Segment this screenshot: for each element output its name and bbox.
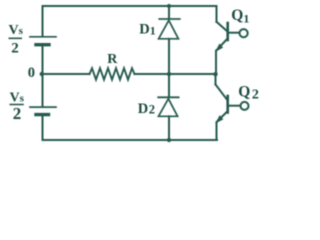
wire left vertical lower: [42, 115, 44, 140]
wire D1 anode to middle: [168, 39, 170, 74]
svg-text:D2: D2: [138, 101, 155, 117]
fraction bar of lower Vs/2 label: [10, 104, 23, 106]
svg-text:2: 2: [13, 104, 21, 123]
wire D2 anode to bottom rail: [168, 116, 170, 140]
wire Q1 emitter to middle junction: [215, 51, 217, 74]
battery Vs/2 lower: long plate: [30, 106, 56, 108]
svg-text:Q1: Q1: [231, 7, 249, 26]
junction dot middle / right branch: [213, 72, 217, 76]
wire Q2 collector from middle junction: [215, 74, 217, 85]
transistor Q2 base bar: [226, 96, 229, 113]
junction dot bottom rail / D2: [167, 138, 171, 142]
transistor Q2 emitter diagonal: [217, 111, 228, 121]
svg-text:D1: D1: [139, 22, 155, 38]
transistor Q2 base lead: [229, 105, 241, 107]
transistor Q1 emitter diagonal: [217, 39, 228, 50]
transistor Q1 emitter arrowhead: [216, 44, 222, 50]
junction dot middle / D branch: [167, 72, 171, 76]
diode D1 cathode bar: [159, 18, 180, 20]
wire left vertical upper: [42, 6, 44, 36]
wire D-branch top: [168, 6, 170, 19]
transistor Q2 emitter arrowhead: [216, 116, 222, 122]
wire middle right to right branch: [135, 73, 216, 75]
battery Vs/2 upper: short plate: [36, 43, 49, 46]
junction dot top rail / D1: [167, 4, 171, 8]
transistor Q1 base lead: [229, 32, 240, 34]
transistor Q2 base terminal circle: [241, 102, 249, 110]
junction node 0 dot: [40, 72, 44, 76]
transistor Q2 collector diagonal: [216, 85, 228, 101]
svg-text:2: 2: [11, 41, 18, 57]
wire middle left from node 0: [43, 73, 90, 75]
battery Vs/2 upper: long plate: [30, 36, 56, 38]
svg-text:R: R: [107, 52, 118, 67]
fraction bar of upper Vs/2 label: [9, 37, 21, 39]
svg-text:Q2: Q2: [238, 83, 259, 102]
svg-text:Vs: Vs: [9, 23, 24, 38]
transistor Q1 base bar: [226, 23, 229, 40]
transistor Q1 collector corner wire: [216, 6, 218, 22]
diode D1 triangle: [159, 20, 179, 39]
transistor Q1 base terminal circle: [240, 29, 248, 37]
battery Vs/2 lower: short plate: [36, 113, 49, 116]
wire D2 cathode to middle: [168, 74, 170, 97]
resistor R zigzag: [90, 68, 135, 79]
diode D2 cathode bar: [158, 96, 178, 98]
wire left vertical middle: [42, 45, 44, 107]
wire top rail: [43, 5, 217, 7]
wire bottom rail: [43, 139, 218, 141]
transistor Q1 collector diagonal: [217, 22, 228, 32]
wire Q2 emitter to bottom rail: [216, 122, 218, 140]
svg-text:0: 0: [28, 65, 35, 81]
diode D2 triangle: [159, 99, 178, 117]
